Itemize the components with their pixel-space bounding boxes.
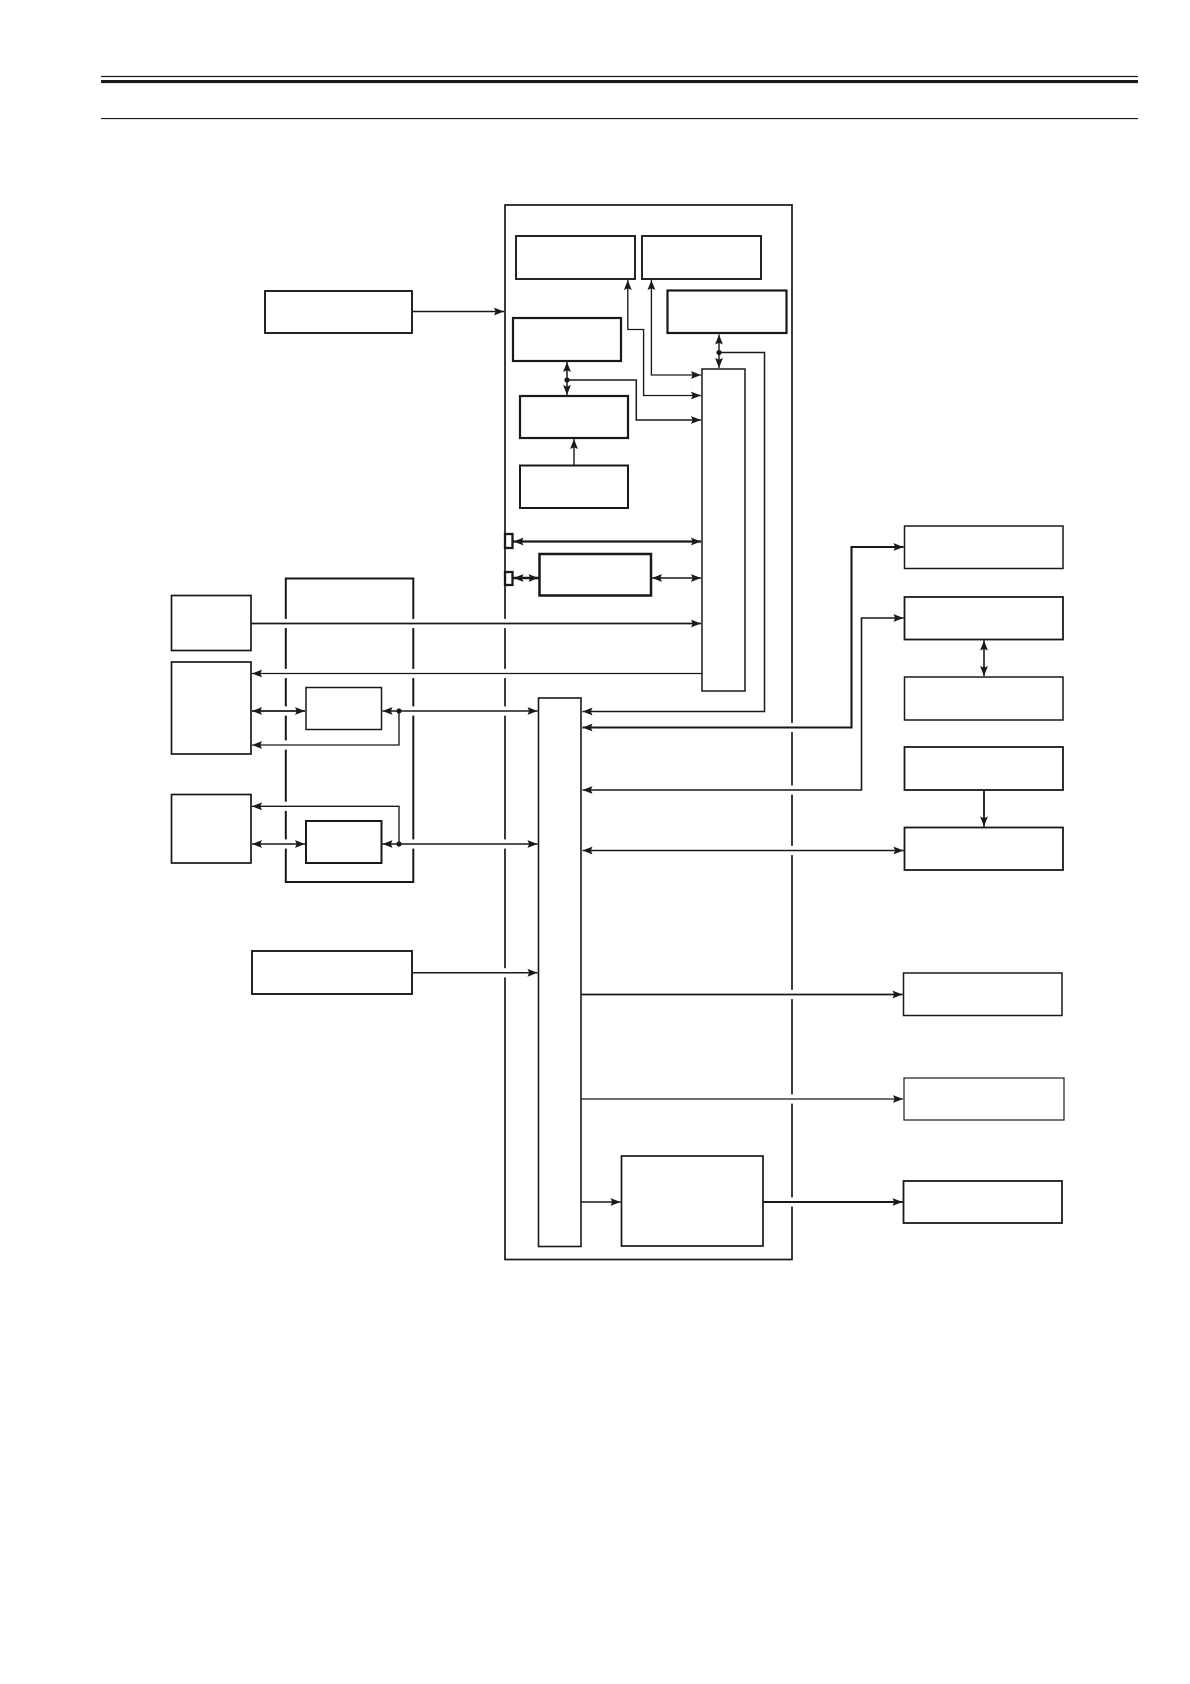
wire T1 to box H xyxy=(252,670,702,678)
wire box M to bus (double arrow with junction) xyxy=(383,840,538,848)
box B (top row right, inside enclosure) xyxy=(642,236,761,279)
wire box I to bus (double arrow with junction) xyxy=(383,707,538,715)
wire box C to T1 (double arrow) xyxy=(715,335,723,369)
wire crossing gaps xyxy=(283,619,796,1207)
wire port 1 to T1 (double arrow) xyxy=(514,538,702,546)
external box Ext1 (upper left) xyxy=(265,291,412,333)
wire box H to box I (double arrow) xyxy=(252,707,305,715)
wire box E2 to box E xyxy=(570,439,578,466)
right box R5 xyxy=(905,828,1064,871)
right box R3 xyxy=(905,677,1064,720)
header lower thin rule xyxy=(101,118,1138,120)
wire Ext1 to enclosure xyxy=(412,308,504,316)
wire T1 to box A xyxy=(624,280,701,399)
tall controller box T1 xyxy=(702,369,745,691)
wire bus to box N xyxy=(582,1198,621,1206)
left container L xyxy=(286,579,414,883)
wire bus to R5 (double arrow) xyxy=(583,847,904,855)
wire box C junction to bus xyxy=(583,350,765,716)
box E (third row left, inside enclosure) xyxy=(520,396,628,438)
wire box G to T1 xyxy=(251,620,701,628)
header thick rule xyxy=(101,80,1138,83)
left box G xyxy=(172,596,252,651)
right box R8 xyxy=(904,1181,1063,1223)
wire box K to box M (double arrow) xyxy=(252,840,305,848)
wire bus to R7 xyxy=(582,1095,904,1103)
right box R4 xyxy=(905,747,1064,790)
vertical bus bar xyxy=(539,698,582,1247)
wire box N to R8 xyxy=(764,1198,903,1206)
box N (bottom, inside enclosure) xyxy=(622,1156,764,1246)
wire T1 to box B xyxy=(648,280,702,379)
port stub 1 on enclosure left edge xyxy=(505,534,513,548)
wire bus to R2 (double arrow) xyxy=(583,614,904,794)
box A (top row left, inside enclosure) xyxy=(516,236,635,279)
box C (second row right, inside enclosure) xyxy=(668,291,787,334)
right box R7 xyxy=(904,1078,1064,1120)
right box R1 xyxy=(905,526,1064,569)
wire R4 to R5 xyxy=(980,791,988,827)
wire R2 to R3 (double arrow) xyxy=(980,641,988,677)
left box P (lower) xyxy=(252,951,412,994)
wire box M junction to box K xyxy=(252,802,399,844)
wire box P to bus xyxy=(412,969,538,977)
wire bus to R6 xyxy=(582,991,903,999)
right box R2 xyxy=(905,597,1064,640)
right box R6 xyxy=(904,973,1063,1016)
box E2 (fourth row left, inside enclosure) xyxy=(520,466,628,509)
outer board enclosure xyxy=(505,205,792,1260)
wire box I junction to box H xyxy=(252,711,399,749)
port stub 2 on enclosure left edge xyxy=(505,572,513,585)
box F (line interface, inside enclosure) xyxy=(540,554,652,596)
wire box F to T1 (double arrow) xyxy=(652,574,701,582)
header top thin rule xyxy=(101,76,1138,78)
left box H xyxy=(172,662,252,754)
box D (second row left, inside enclosure) xyxy=(513,318,621,361)
small box I (inside container) xyxy=(306,688,382,730)
wire box D to box E (double arrow) xyxy=(563,362,571,395)
wire port 2 to box F (double arrow) xyxy=(514,574,539,582)
small box M (inside container) xyxy=(306,821,382,863)
wire bus to R1 (double arrow) xyxy=(583,543,904,731)
wire box D junction to T1 xyxy=(564,377,701,424)
left box K xyxy=(172,795,252,864)
